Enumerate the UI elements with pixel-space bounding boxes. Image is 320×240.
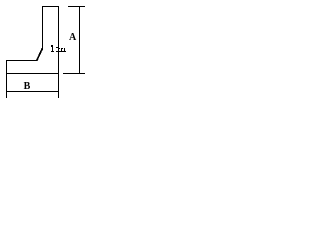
svg-text:B: B — [24, 81, 31, 92]
label m right stem — [64, 48, 65, 51]
angle leg inner left edge — [42, 6, 44, 50]
angle bottom edge — [6, 73, 59, 75]
label m middle stem — [61, 48, 62, 51]
label m right arch — [62, 48, 63, 49]
dimension line A — [79, 6, 81, 74]
svg-text:A: A — [69, 32, 77, 43]
dimension A top cap — [68, 6, 85, 8]
angle right edge with extension line to B dimension — [58, 6, 60, 98]
label m serif feet — [56, 51, 66, 52]
label 1 flag — [51, 45, 52, 47]
inner fillet chamfer — [37, 48, 43, 61]
label 1 foot serif — [51, 51, 54, 52]
dimension A bottom cap — [63, 73, 85, 75]
dimension line B — [6, 91, 59, 93]
angle left edge with extension line to B dimension — [6, 60, 8, 98]
horizontal arm top edge — [6, 60, 37, 62]
angle leg top edge — [42, 6, 59, 8]
label m left arch — [59, 48, 60, 49]
label m top flag — [56, 47, 58, 48]
label 1 stem — [52, 45, 53, 51]
